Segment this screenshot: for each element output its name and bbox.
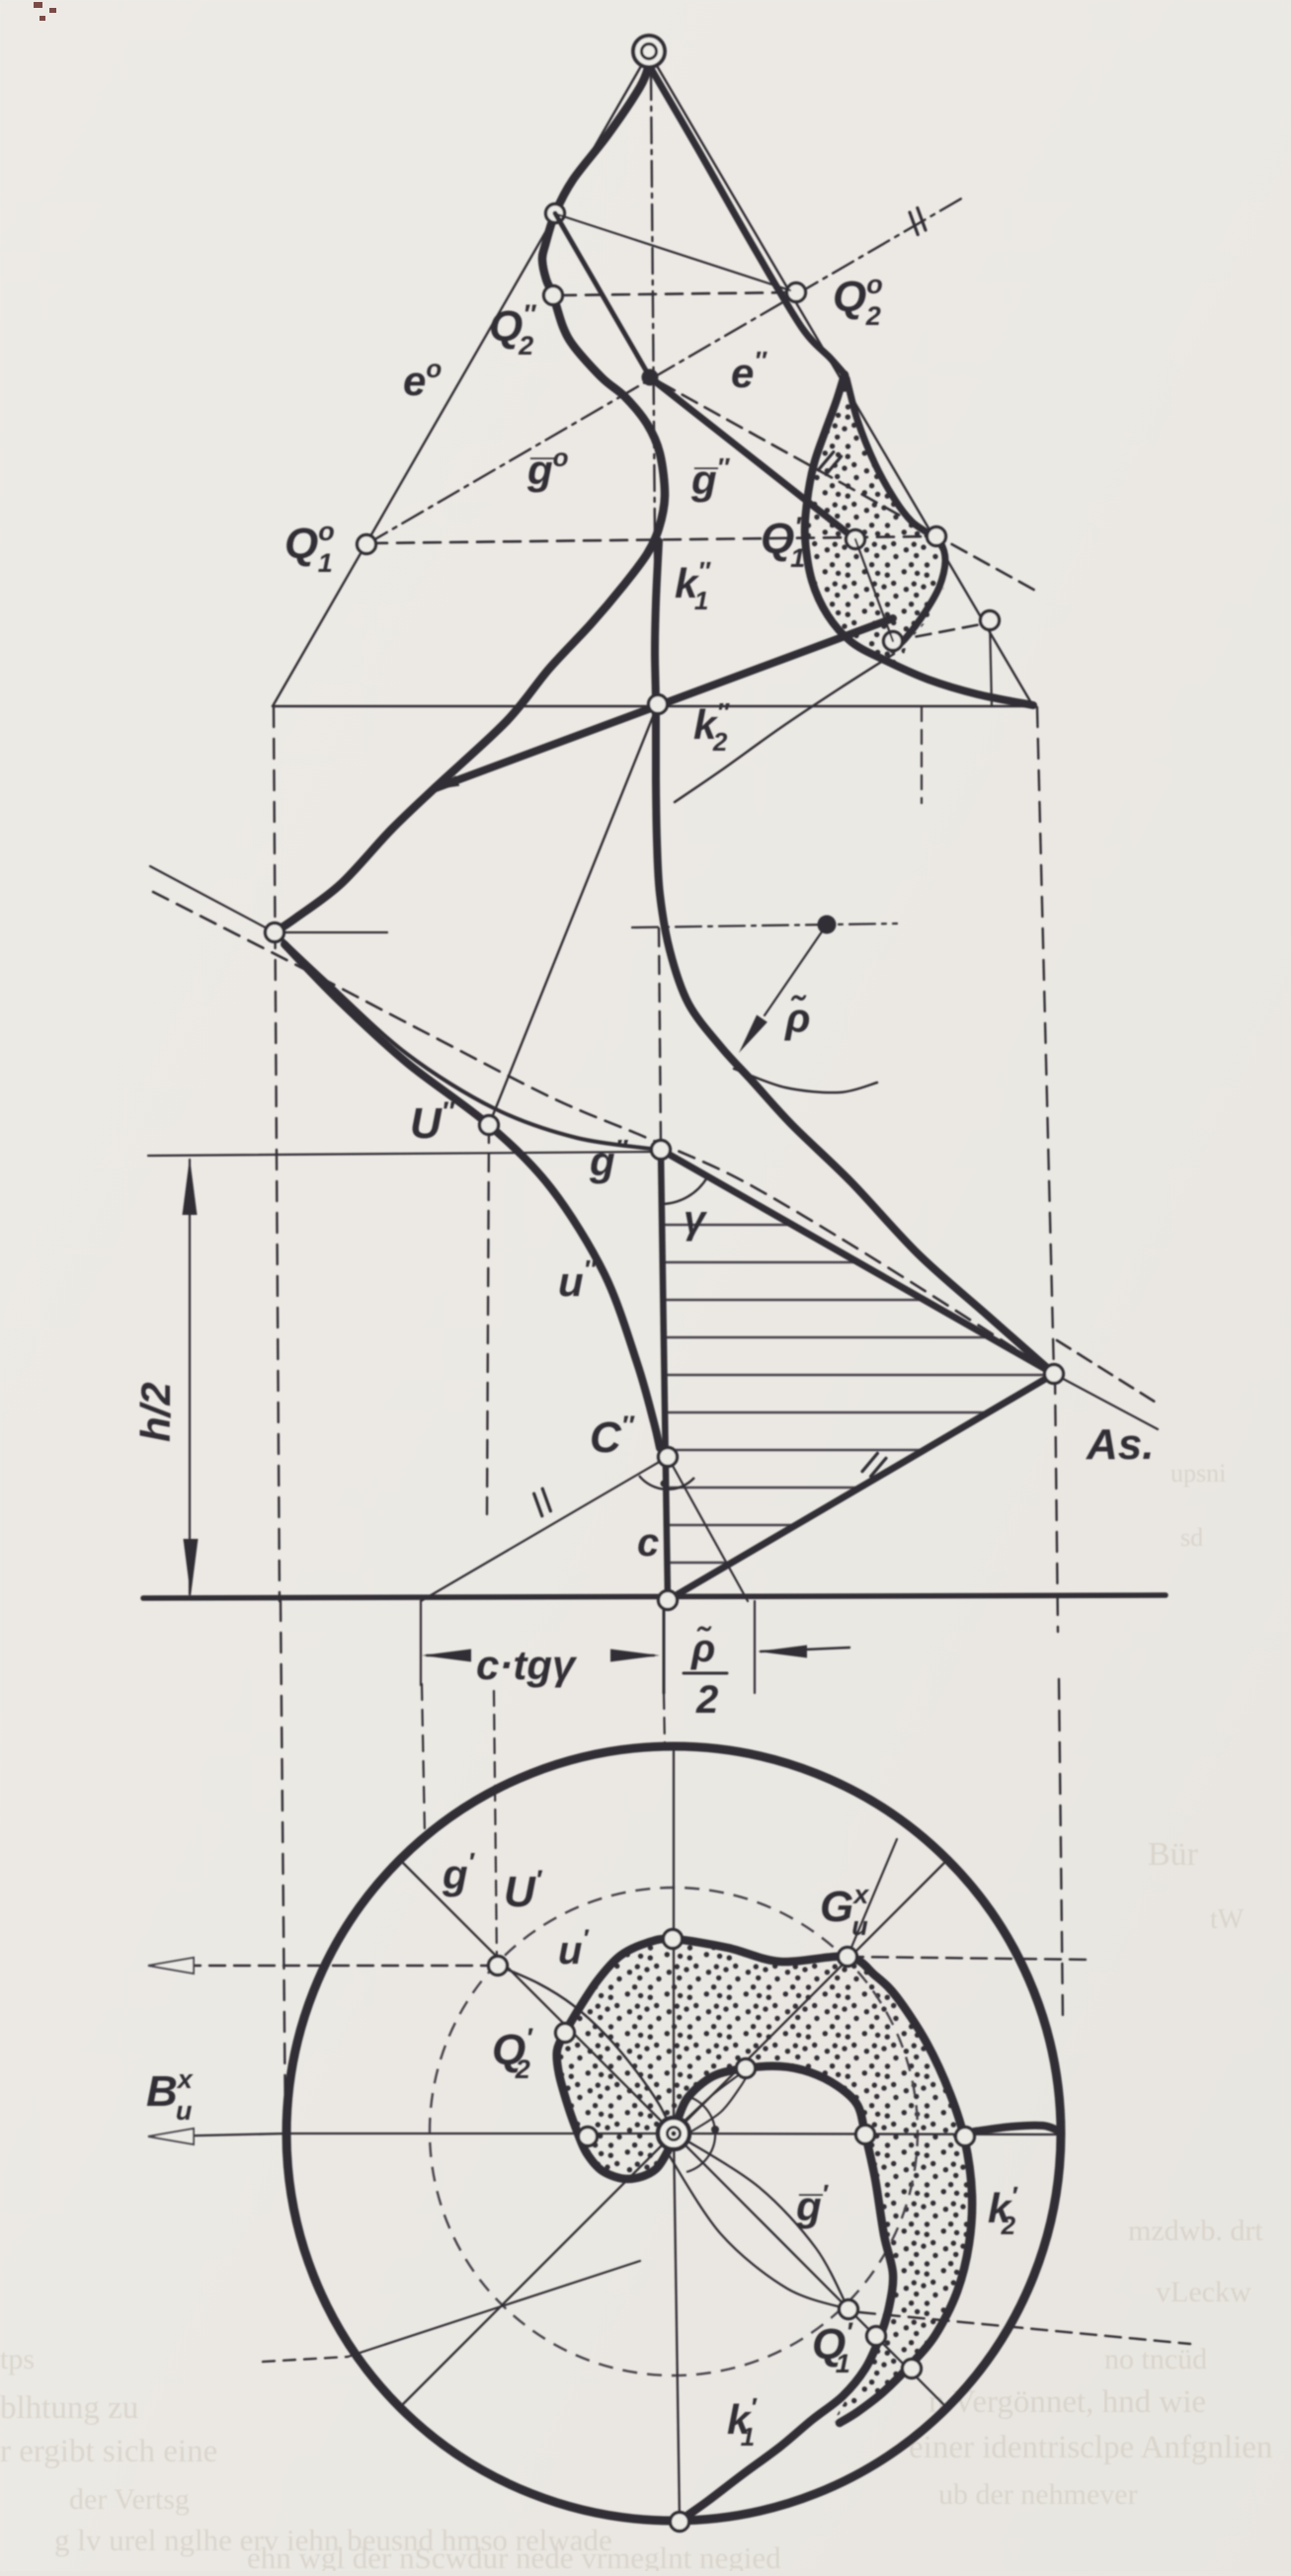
svg-text:ehn wgl der nScwdur nede vrmeg: ehn wgl der nScwdur nede vrmeglnt negied: [247, 2540, 781, 2571]
svg-text:r ergibt sich eine: r ergibt sich eine: [0, 2434, 217, 2469]
svg-text:tW: tW: [1210, 1904, 1245, 1935]
svg-text:γ: γ: [684, 1198, 708, 1242]
svg-text:ub der nehmever: ub der nehmever: [938, 2478, 1138, 2511]
svg-text:Bür: Bür: [1148, 1836, 1199, 1873]
svg-text:vLeckw: vLeckw: [1156, 2276, 1251, 2308]
svg-text:blhtung zu: blhtung zu: [0, 2390, 138, 2426]
svg-text:As.: As.: [1086, 1420, 1154, 1469]
svg-text:c: c: [637, 1521, 659, 1565]
svg-text:2: 2: [695, 1678, 718, 1722]
svg-text:der Vertsg: der Vertsg: [69, 2483, 190, 2516]
svg-text:mzdwb. drt: mzdwb. drt: [1128, 2214, 1263, 2247]
svg-text:n Vergönnet, hnd wie: n Vergönnet, hnd wie: [928, 2384, 1206, 2420]
svg-text:tps: tps: [0, 2343, 35, 2375]
svg-text:ρ̃: ρ̃: [784, 994, 810, 1041]
svg-text:ρ̃: ρ̃: [690, 1625, 715, 1670]
svg-text:no tncüd: no tncüd: [1104, 2343, 1207, 2375]
svg-text:einer identrisclpe Anfgnlien: einer identrisclpe Anfgnlien: [909, 2430, 1272, 2465]
svg-text:h/2: h/2: [132, 1382, 179, 1442]
svg-text:c·tgγ: c·tgγ: [476, 1642, 578, 1688]
svg-text:sd: sd: [1180, 1523, 1203, 1552]
svg-text:upsni: upsni: [1170, 1459, 1226, 1488]
